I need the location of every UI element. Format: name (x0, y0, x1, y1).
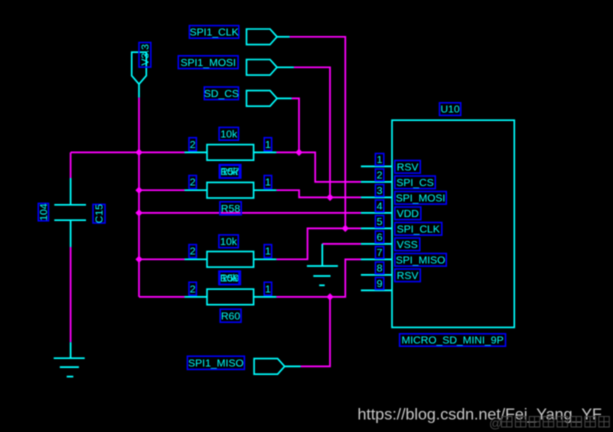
svg-text:RSV: RSV (397, 270, 419, 282)
pin name RSV (395, 161, 421, 174)
wire rail to R58 (139, 189, 185, 191)
svg-text:SPI1_MOSI: SPI1_MOSI (180, 57, 235, 69)
designator R58 (220, 202, 241, 215)
svg-text:104: 104 (38, 203, 50, 221)
value 10k of R60 (220, 272, 239, 285)
port SD_CS (247, 91, 292, 107)
IC U10 body (392, 120, 514, 327)
pin number 8 (375, 262, 383, 274)
watermark cjk (489, 416, 609, 431)
net label SPI1_MISO (187, 356, 244, 369)
pin 5 of U10 (361, 227, 392, 229)
label V3.3 (139, 43, 151, 68)
wire R60 to SPI_MISO pin7 (276, 259, 361, 297)
part name MICRO_SD_MINI_9P (400, 334, 506, 347)
wire rail to R59 (139, 258, 185, 260)
svg-text:10k: 10k (220, 128, 238, 140)
svg-text:7: 7 (377, 247, 383, 259)
pin 9 of U10 (361, 289, 392, 291)
port SPI1_MOSI (247, 60, 294, 76)
port SPI1_CLK (247, 29, 290, 45)
svg-text:SPI_CS: SPI_CS (396, 177, 433, 189)
pin number 6 (375, 231, 383, 243)
pin 4 of U10 (361, 212, 392, 214)
svg-text:@: @ (489, 416, 502, 431)
wire VSS pin6 to ground (322, 243, 361, 245)
svg-text:V3.3: V3.3 (139, 44, 151, 66)
junction MISO-R60 (327, 294, 333, 300)
svg-text:SPI1_CLK: SPI1_CLK (190, 26, 239, 38)
svg-text:6: 6 (377, 231, 383, 243)
wire rail to R60 (139, 296, 185, 298)
pin 6 of U10 (361, 243, 392, 245)
svg-text:C15: C15 (94, 204, 106, 223)
wire SPI1_CLK down (290, 37, 346, 229)
ground (C15) (54, 342, 85, 376)
pin name RSV (395, 269, 421, 282)
junction SD_CS-R57 (296, 150, 302, 156)
svg-text:2: 2 (190, 139, 196, 151)
svg-text:9: 9 (377, 278, 383, 290)
wire R57 to SPI_CS pin2 (276, 152, 361, 182)
svg-text:10k: 10k (221, 273, 239, 285)
svg-text:10k: 10k (220, 236, 238, 248)
svg-text:1: 1 (265, 283, 271, 295)
resistor R60 (185, 289, 277, 305)
wire rail to R57 and C15 (71, 151, 185, 153)
resistor R58 (185, 182, 277, 198)
pin number 4 (375, 200, 383, 212)
pin name VSS (395, 238, 420, 251)
svg-text:SPI_MOSI: SPI_MOSI (396, 192, 446, 204)
wire C15 bottom to ground (70, 247, 72, 342)
svg-text:R60: R60 (221, 310, 240, 322)
pin 1 of R60 (264, 282, 271, 295)
svg-text:1: 1 (265, 246, 271, 258)
pin 1 of R57 (264, 138, 271, 151)
designator R57 (219, 165, 241, 178)
pin number 3 (375, 185, 383, 197)
svg-text:2: 2 (190, 246, 196, 258)
ground (VSS) (307, 244, 338, 285)
svg-text:4: 4 (377, 200, 383, 212)
pin name SPI_CLK (395, 223, 442, 236)
wire SPI1_MOSI down (294, 67, 330, 197)
pin 2 of R57 (189, 138, 196, 151)
designator R60 (220, 309, 241, 322)
wire rail to VDD pin4 (139, 212, 361, 214)
svg-text:SPI1_MISO: SPI1_MISO (188, 357, 243, 369)
svg-text:2: 2 (190, 283, 196, 295)
svg-text:1: 1 (265, 139, 271, 151)
pin name SPI_MOSI (395, 192, 447, 205)
junction CLK-pin5 (342, 226, 348, 232)
net label SPI1_MOSI (178, 56, 238, 69)
wire SPI1_MISO up (301, 297, 330, 367)
svg-text:SPI_MISO: SPI_MISO (396, 254, 446, 266)
junction MOSI-pin3 (327, 195, 333, 201)
svg-text:5: 5 (377, 216, 383, 228)
capacitor C15 (54, 178, 86, 247)
pin 2 of R59 (189, 245, 196, 258)
pin 8 of U10 (361, 274, 392, 276)
resistor R59 (185, 252, 277, 268)
wire SD_CS down (292, 98, 299, 152)
pin number 2 (375, 169, 383, 181)
pin name VDD (395, 207, 421, 220)
svg-text:1: 1 (265, 177, 271, 189)
svg-text:MICRO_SD_MINI_9P: MICRO_SD_MINI_9P (401, 335, 503, 347)
value 10k of R57 (219, 127, 238, 140)
svg-text:VDD: VDD (397, 208, 420, 220)
svg-text:https://blog.csdn.net/Fei_Yang: https://blog.csdn.net/Fei_Yang_YF (358, 406, 603, 423)
pin name SPI_MISO (395, 254, 447, 267)
pin number 9 (375, 278, 383, 290)
pin 2 of U10 (361, 181, 392, 183)
value 10k of R58 (220, 165, 239, 178)
svg-text:U10: U10 (440, 104, 459, 116)
wire C15 top (70, 152, 72, 178)
pin 1 of U10 (361, 165, 392, 167)
wire R58 to SPI_MOSI pin3 (276, 190, 361, 197)
svg-text:2: 2 (190, 177, 196, 189)
pin 2 of R58 (189, 176, 196, 189)
pin 7 of U10 (361, 258, 392, 260)
net label SPI1_CLK (189, 26, 238, 39)
svg-text:SPI_CLK: SPI_CLK (397, 223, 440, 235)
port SPI1_MISO (254, 359, 301, 375)
svg-text:10k: 10k (221, 166, 239, 178)
pin name SPI_CS (395, 176, 436, 189)
designator U10 (440, 103, 461, 116)
pin 3 of U10 (361, 196, 392, 198)
pin 1 of R58 (264, 176, 271, 189)
svg-text:SD_CS: SD_CS (204, 88, 239, 100)
power V3.3 (132, 52, 147, 97)
svg-text:RSV: RSV (397, 161, 419, 173)
svg-text:3: 3 (377, 185, 383, 197)
value 10k of R59 (219, 235, 238, 248)
designator R59 (219, 271, 241, 284)
pin number 5 (375, 216, 383, 228)
junction rail-VDD (136, 210, 142, 216)
net label SD_CS (204, 87, 239, 100)
svg-text:2: 2 (377, 169, 383, 181)
svg-text:VSS: VSS (397, 239, 418, 251)
svg-text:8: 8 (377, 262, 383, 274)
wire V3.3 rail vertical (138, 98, 140, 297)
pin 1 of R59 (264, 245, 271, 258)
pin 2 of R60 (189, 282, 196, 295)
junction rail-R58 (136, 187, 142, 193)
pin number 1 (375, 154, 383, 166)
svg-text:R58: R58 (221, 203, 240, 215)
pin number 7 (375, 247, 383, 259)
label C15 (93, 204, 106, 223)
value 104 (38, 203, 50, 221)
wire R59 to SPI_CLK pin5 (276, 228, 361, 259)
junction rail-R59 (136, 256, 142, 262)
svg-text:1: 1 (377, 154, 383, 166)
junction rail-R57 (136, 150, 142, 156)
resistor R57 (185, 145, 277, 161)
